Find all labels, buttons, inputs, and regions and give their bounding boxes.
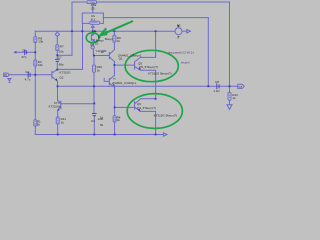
- svg-text:B2: B2: [177, 24, 181, 28]
- svg-text:5keyn: 5keyn: [105, 37, 113, 41]
- svg-text:beq/rel: beq/rel: [181, 60, 190, 64]
- svg-text:1k: 1k: [61, 120, 65, 124]
- svg-text:Q5_57keyn(?): Q5_57keyn(?): [139, 65, 158, 69]
- svg-text:out: out: [239, 84, 243, 88]
- svg-text:C4: C4: [91, 119, 95, 123]
- svg-text:C5: C5: [91, 6, 95, 10]
- svg-text:Y12 081: Y12 081: [95, 49, 107, 53]
- svg-text:C8: C8: [215, 80, 219, 84]
- svg-text:Q2: Q2: [59, 76, 63, 80]
- svg-text:dsp.param1 I2 V0.5 f: dsp.param1 I2 V0.5 f: [168, 51, 194, 55]
- svg-text:47p: 47p: [21, 55, 26, 59]
- svg-text:1 k: 1 k: [91, 25, 96, 29]
- svg-text:C5: C5: [22, 48, 26, 52]
- svg-text:1k: 1k: [97, 68, 101, 72]
- svg-text:C7: C7: [58, 56, 62, 60]
- svg-text:8.1: 8.1: [91, 17, 96, 21]
- svg-text:10: 10: [95, 41, 99, 45]
- svg-text:KT315Gb: KT315Gb: [49, 105, 61, 109]
- svg-text:R7: R7: [60, 44, 64, 48]
- svg-text:IN: IN: [4, 74, 7, 77]
- svg-text:1k: 1k: [117, 118, 121, 122]
- svg-text:1k: 1k: [232, 96, 236, 100]
- svg-text:1k: 1k: [117, 39, 121, 43]
- svg-text:KT315G 5keyn(?): KT315G 5keyn(?): [148, 71, 172, 75]
- svg-text:4.7u: 4.7u: [25, 78, 31, 82]
- svg-text:Q1: Q1: [119, 57, 123, 61]
- svg-text:5k: 5k: [100, 123, 104, 127]
- svg-text:KT315G 5keyn(?): KT315G 5keyn(?): [154, 114, 178, 118]
- svg-text:C2: C2: [25, 70, 29, 74]
- svg-text:1mF: 1mF: [97, 117, 103, 121]
- svg-text:Q3_5?keyn(?): Q3_5?keyn(?): [137, 106, 156, 110]
- svg-text:10k: 10k: [38, 40, 43, 44]
- svg-text:10k: 10k: [38, 63, 43, 67]
- svg-text:1.2m: 1.2m: [213, 89, 220, 93]
- svg-text:1k: 1k: [37, 123, 41, 127]
- svg-text:KT315G: KT315G: [59, 71, 71, 75]
- svg-text:Q4: Q4: [90, 42, 94, 46]
- svg-text:68p: 68p: [59, 63, 64, 67]
- svg-text:10k: 10k: [59, 50, 64, 54]
- svg-text:2N4501_CGRQLL: 2N4501_CGRQLL: [112, 81, 137, 85]
